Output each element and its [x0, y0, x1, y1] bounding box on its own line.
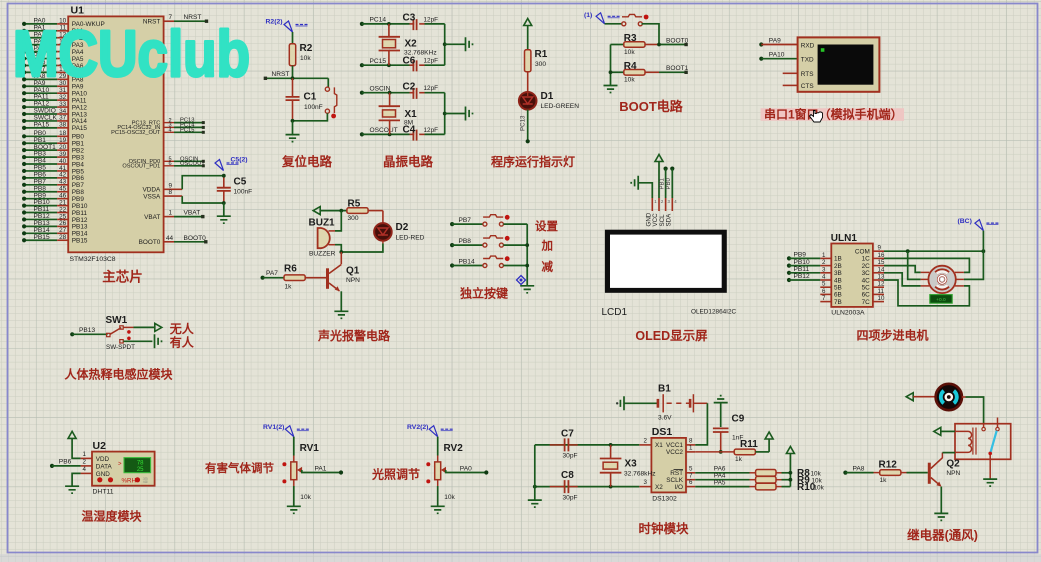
- svg-text:D1: D1: [541, 91, 554, 102]
- wire probe to R2: [292, 32, 294, 44]
- crystal X2 32.768KHz: [379, 24, 437, 65]
- crystal X3 32.768kHz: [600, 445, 656, 487]
- svg-text:BOOT1: BOOT1: [666, 65, 689, 72]
- ground (rotated left) for battery negative: [616, 396, 624, 410]
- svg-text:继电器(通风): 继电器(通风): [907, 528, 978, 543]
- battery B1 3.6V: [658, 384, 694, 422]
- svg-text:STM32F103C8: STM32F103C8: [70, 256, 116, 263]
- svg-text:10k: 10k: [624, 49, 635, 56]
- wire X2 row: [533, 485, 639, 489]
- svg-text:OSCIN: OSCIN: [370, 86, 391, 93]
- svg-text:DS1302: DS1302: [652, 496, 677, 503]
- wire PB14 to key: [452, 265, 483, 267]
- svg-text:12pF: 12pF: [424, 58, 439, 65]
- potentiometer RV1 10k: [282, 443, 319, 501]
- reset push button: [325, 87, 337, 118]
- svg-text:C1: C1: [304, 92, 317, 103]
- svg-text:C2: C2: [403, 82, 416, 93]
- svg-text:30pF: 30pF: [563, 453, 578, 460]
- svg-text:R3: R3: [624, 33, 637, 44]
- wire buzzer top pin: [329, 211, 342, 231]
- svg-text:7: 7: [822, 295, 826, 302]
- power arrow for U2: [68, 431, 76, 438]
- wire probe to button: [605, 23, 622, 25]
- wire SCLK net PA4: [695, 473, 749, 480]
- svg-text:10k: 10k: [300, 55, 311, 62]
- svg-text:12pF: 12pF: [424, 16, 439, 23]
- svg-text:X2: X2: [655, 484, 663, 491]
- wire C1 bottom to ground: [292, 121, 294, 134]
- svg-text:R5: R5: [348, 199, 361, 210]
- terminal PB6: [50, 459, 72, 468]
- probe R2(2) on reset node: [266, 19, 308, 33]
- relay coil: [955, 428, 976, 455]
- stepper motor body: [928, 266, 955, 293]
- svg-text:8: 8: [689, 438, 693, 445]
- power arrow 无人: [155, 323, 162, 331]
- caption 主芯片: [102, 269, 143, 285]
- wire VCC2 row: [695, 451, 734, 453]
- pull-up rail and power arrow: [789, 454, 793, 487]
- wire key PB14 to common rail: [503, 265, 527, 267]
- svg-text:2: 2: [644, 438, 648, 445]
- wire to reset button top contact: [327, 78, 329, 87]
- wire RV2 to ground: [437, 480, 439, 506]
- U1 pin 44 BOOT0 wire: [139, 235, 208, 246]
- wire GND pin to ground: [72, 473, 81, 485]
- svg-text:SDA: SDA: [666, 213, 673, 227]
- OLED display LCD1 body: [602, 230, 737, 318]
- wire battery positive to VCC1: [693, 403, 707, 445]
- wire ground to C9: [720, 403, 722, 427]
- ground below U2: [65, 486, 79, 493]
- power arrow for D1: [524, 19, 532, 26]
- svg-text:主芯片: 主芯片: [102, 269, 143, 285]
- svg-text:R2(2): R2(2): [266, 19, 283, 26]
- svg-text:6: 6: [689, 479, 693, 486]
- wire RV1 wiper to PA1: [302, 465, 343, 474]
- caption 程序运行指示灯: [491, 154, 575, 169]
- svg-text:RV1(2): RV1(2): [263, 424, 284, 431]
- svg-text:有害气体调节: 有害气体调节: [205, 461, 274, 475]
- svg-text:PA5: PA5: [714, 479, 726, 486]
- svg-text:X1: X1: [405, 109, 418, 120]
- svg-text:NPN: NPN: [346, 277, 360, 284]
- keys common rail wire: [525, 224, 529, 285]
- svg-text:PA1: PA1: [315, 465, 327, 472]
- svg-text:4: 4: [169, 128, 172, 134]
- svg-text:LED-GREEN: LED-GREEN: [541, 103, 580, 110]
- svg-text:时钟模块: 时钟模块: [638, 521, 689, 536]
- wire PB6 to DATA: [52, 465, 81, 467]
- wire R1 to D1: [527, 72, 529, 92]
- svg-text:C7: C7: [561, 429, 574, 440]
- svg-text:CTS: CTS: [801, 83, 814, 90]
- RTS pin stub: [783, 72, 798, 74]
- svg-text:BUZ1: BUZ1: [309, 218, 336, 229]
- svg-text:R4: R4: [624, 61, 637, 72]
- svg-text:R2: R2: [300, 43, 313, 54]
- terminal PA8: [843, 465, 865, 474]
- terminal PA7: [261, 270, 279, 280]
- wire BOOT1 net: [659, 65, 689, 74]
- ground below Q1: [334, 311, 348, 318]
- svg-text:3.6V: 3.6V: [658, 415, 672, 422]
- capacitor C6 12pF: [403, 55, 445, 71]
- power arrow for relay coil: [934, 427, 941, 435]
- U1 pin 1 VBAT wire: [144, 210, 204, 221]
- wire button to BOOT0 node: [642, 24, 660, 45]
- svg-text:25: 25: [137, 467, 144, 473]
- svg-text:4B: 4B: [834, 277, 842, 284]
- svg-text:人体热释电感应模块: 人体热释电感应模块: [64, 367, 173, 382]
- ULN1 right pins COM,1C-7C with stubs and numbers: [855, 245, 885, 306]
- svg-text:X3: X3: [625, 459, 638, 470]
- svg-text:16: 16: [878, 252, 885, 259]
- terminal PA9: [759, 37, 781, 46]
- svg-text:RXD: RXD: [801, 42, 815, 49]
- wire OSCIN row: [362, 91, 410, 95]
- svg-text:声光报警电路: 声光报警电路: [317, 328, 391, 343]
- relay RL1 body: [955, 424, 1011, 460]
- wire RV1 to ground: [293, 480, 295, 506]
- svg-text:TXD: TXD: [801, 57, 814, 64]
- svg-text:OLED12864I2C: OLED12864I2C: [691, 309, 737, 316]
- svg-text:C3: C3: [403, 13, 416, 24]
- wire Q2 emitter to ground: [940, 487, 942, 513]
- svg-text:(BC): (BC): [958, 218, 972, 225]
- ground below RV2: [431, 506, 445, 513]
- svg-text:X1: X1: [655, 442, 663, 449]
- buzzer BUZ1: [309, 218, 336, 258]
- svg-text:SW-SPDT: SW-SPDT: [106, 344, 135, 351]
- wire R12 to Q2 base: [907, 472, 928, 474]
- svg-text:5B: 5B: [834, 285, 842, 292]
- power arrow for OLED VCC: [655, 155, 663, 162]
- svg-text:PA15: PA15: [72, 125, 88, 132]
- svg-text:ULN1: ULN1: [831, 233, 858, 244]
- svg-text:X2: X2: [405, 39, 418, 50]
- svg-text:独立按键: 独立按键: [459, 286, 508, 301]
- svg-text:(1): (1): [584, 12, 592, 19]
- caption 温湿度模块: [81, 509, 142, 524]
- net label PC13 (vertical): [520, 115, 527, 131]
- origin marker (blue diamond): [517, 276, 526, 285]
- terminal OSCOUT: [360, 127, 398, 136]
- svg-text:PB15: PB15: [34, 234, 50, 241]
- relay contacts and blade: [982, 418, 999, 456]
- svg-text:7C: 7C: [862, 299, 871, 306]
- svg-text:5: 5: [822, 281, 826, 288]
- caption 晶振电路: [383, 154, 434, 169]
- svg-text:D2: D2: [396, 222, 409, 233]
- svg-text:12pF: 12pF: [424, 85, 439, 92]
- wire PB13 to SW1: [72, 333, 107, 335]
- svg-text:BOOT电路: BOOT电路: [619, 99, 684, 114]
- svg-text:1B: 1B: [834, 256, 842, 263]
- ground (inverted) above C9: [714, 396, 728, 403]
- svg-text:PB15: PB15: [72, 238, 88, 245]
- chip ULN1 ULN2003A body: [831, 233, 873, 317]
- svg-text:1k: 1k: [880, 477, 888, 484]
- chip DS1 DS1302 body: [651, 426, 686, 503]
- resistor R2 10k: [289, 43, 312, 66]
- svg-text:VCC2: VCC2: [666, 449, 683, 456]
- wire probe to COM rail: [982, 231, 984, 252]
- wire SCL pin: [665, 169, 667, 198]
- caption 复位电路: [281, 154, 333, 169]
- svg-text:RV2: RV2: [444, 443, 464, 454]
- wire PA10 to TXD: [761, 58, 797, 60]
- svg-text:C5(2): C5(2): [231, 157, 248, 164]
- terminal PB14: [450, 258, 475, 267]
- wire PB7 to key: [452, 223, 483, 225]
- svg-text:Q1: Q1: [346, 266, 360, 277]
- svg-text:1: 1: [83, 451, 87, 458]
- wire COM to motor left center tap: [908, 251, 921, 279]
- svg-text:DATA: DATA: [96, 463, 113, 470]
- wire power to U2 VDD: [72, 438, 81, 458]
- label 加: [541, 238, 554, 252]
- svg-text:PB9: PB9: [794, 252, 807, 259]
- DS1 left pin stubs and numbers: [639, 438, 651, 487]
- svg-text:PB10: PB10: [794, 259, 810, 266]
- wire PA8 to R12: [845, 472, 873, 474]
- ULN1 left pins 1B-7B with stubs and numbers: [820, 252, 842, 306]
- power arrow for R5: [313, 207, 320, 215]
- wire Q2 collector to relay coil: [942, 453, 955, 459]
- svg-text:NPN: NPN: [946, 470, 960, 477]
- svg-text:2: 2: [83, 459, 87, 466]
- key button PB14: [483, 256, 510, 267]
- capacitor C5 100nF: [217, 174, 252, 205]
- probe RV1(2): [263, 424, 309, 437]
- svg-text:2C: 2C: [862, 263, 871, 270]
- svg-text:13: 13: [878, 274, 885, 281]
- svg-text:6: 6: [169, 161, 172, 167]
- wire power to R1: [527, 26, 529, 50]
- svg-text:COM: COM: [855, 249, 870, 256]
- svg-text:10k: 10k: [300, 494, 311, 501]
- svg-text:程序运行指示灯: 程序运行指示灯: [491, 154, 575, 169]
- caption 光照调节: [371, 467, 420, 482]
- terminal PB7: [450, 217, 471, 226]
- caption 人体热释电感应模块: [64, 367, 173, 382]
- svg-text:VBAT: VBAT: [144, 214, 160, 221]
- wire R11 to power arrow: [755, 439, 769, 452]
- net label PB1 (vertical): [659, 177, 665, 189]
- svg-text:PA15: PA15: [34, 121, 50, 128]
- svg-text:2: 2: [822, 259, 826, 266]
- wire PC14 row: [362, 22, 410, 26]
- LED D1 LED-GREEN: [519, 91, 579, 110]
- terminal OSCIN: [360, 86, 391, 95]
- wire RST net PA6: [695, 466, 749, 473]
- label 有人: [170, 334, 195, 349]
- ground of clock crystal: [528, 500, 542, 507]
- potentiometer RV2 10k: [426, 443, 463, 501]
- svg-text:6B: 6B: [834, 292, 842, 299]
- wire Q1 emitter to ground: [340, 291, 342, 311]
- U1 pins OSCIN_PD0/OSCOUT_PD1 wires and net labels: [122, 156, 205, 169]
- svg-text:3B: 3B: [834, 270, 842, 277]
- svg-text:10k: 10k: [811, 471, 822, 478]
- resistor R1 300: [525, 49, 548, 72]
- wire I/O net PA5: [695, 479, 749, 486]
- wire power to fan (red): [913, 396, 935, 398]
- U1 pin 7 NRST wire and net label: [143, 14, 208, 25]
- svg-text:PA8: PA8: [853, 465, 865, 472]
- caption 串口1窗口(模拟手机端) with highlight: [761, 107, 904, 122]
- svg-text:PB12: PB12: [794, 273, 810, 280]
- svg-text:R1: R1: [535, 49, 548, 60]
- caption OLED显示屏: [635, 329, 708, 343]
- wire D1 to PC13 terminal: [526, 110, 530, 144]
- transistor Q1 NPN: [326, 265, 360, 292]
- svg-text:38: 38: [59, 122, 67, 129]
- svg-text:VCC1: VCC1: [666, 442, 683, 449]
- svg-text:PB13: PB13: [79, 327, 95, 334]
- wire PB8 to key: [452, 244, 483, 246]
- svg-text:4: 4: [83, 466, 87, 473]
- svg-text:PB0: PB0: [666, 177, 672, 189]
- svg-text:光照调节: 光照调节: [371, 467, 420, 482]
- caption 独立按键: [459, 286, 508, 301]
- svg-text:3: 3: [644, 479, 648, 486]
- wire key PB8 to common rail: [503, 244, 527, 246]
- wire GND pin: [639, 183, 652, 198]
- resistor R5 300: [347, 199, 383, 222]
- resistor R10 10k: [750, 482, 825, 493]
- svg-text:12: 12: [878, 281, 885, 288]
- ground (rotated) of X1 block: [466, 107, 473, 121]
- resistor R9 10k: [750, 475, 823, 486]
- caption 四项步进电机: [856, 328, 928, 343]
- svg-text:10: 10: [878, 295, 885, 302]
- svg-text:BUZZER: BUZZER: [309, 251, 336, 258]
- stepper speed display: [930, 295, 952, 304]
- wire PC15 row: [362, 63, 410, 67]
- svg-text:SW1: SW1: [106, 315, 128, 326]
- svg-text:R6: R6: [284, 264, 297, 275]
- svg-text:C6: C6: [403, 55, 416, 66]
- svg-text:32.768kHz: 32.768kHz: [624, 471, 656, 478]
- svg-text:U1: U1: [71, 5, 85, 17]
- svg-text:PB6: PB6: [59, 459, 72, 466]
- DHT11 red indicator dots and %RH label: [97, 476, 148, 484]
- svg-text:100nF: 100nF: [234, 189, 253, 196]
- wire battery negative: [624, 402, 658, 404]
- svg-text:PA7: PA7: [266, 270, 278, 277]
- svg-text:PC13: PC13: [520, 115, 527, 131]
- wire 4C to motor right-bottom: [884, 280, 969, 306]
- svg-text:10k: 10k: [814, 485, 825, 492]
- svg-text:R11: R11: [740, 439, 758, 450]
- net label PB0 (vertical): [666, 177, 672, 189]
- svg-text:LED-RED: LED-RED: [396, 234, 425, 241]
- wire VDDA to C5 top: [143, 176, 224, 194]
- svg-text:四项步进电机: 四项步进电机: [856, 328, 928, 343]
- svg-text:OSCOUT: OSCOUT: [370, 127, 398, 134]
- svg-text:11: 11: [878, 288, 885, 295]
- svg-text:3: 3: [822, 266, 826, 273]
- svg-text:1C: 1C: [862, 256, 871, 263]
- svg-text:8: 8: [169, 189, 173, 196]
- wire right vertical of X2 block: [443, 24, 465, 65]
- MCUclub cyan watermark: [13, 17, 250, 90]
- svg-text:加: 加: [541, 238, 554, 252]
- wire R2 to NRST node: [292, 66, 294, 79]
- svg-text:BOOT0: BOOT0: [666, 37, 689, 44]
- svg-text:湿: 湿: [143, 476, 149, 484]
- probe (1) on BOOT button: [584, 12, 620, 24]
- capacitor C7 30pF: [550, 429, 578, 460]
- capacitor C4 12pF: [403, 125, 445, 141]
- svg-text:12pF: 12pF: [424, 127, 439, 134]
- wire C5 to ground: [223, 203, 225, 216]
- svg-text:1k: 1k: [735, 456, 743, 463]
- ground below C5: [217, 216, 231, 223]
- svg-text:VSSA: VSSA: [143, 193, 161, 200]
- serial window component body: [798, 37, 880, 91]
- svg-text:BOOT0: BOOT0: [139, 239, 161, 246]
- svg-text:15: 15: [878, 259, 885, 266]
- svg-text:VBAT: VBAT: [184, 210, 201, 217]
- svg-text:C5: C5: [234, 177, 247, 188]
- svg-text:无人: 无人: [169, 321, 195, 336]
- wire BOOT0 net: [657, 37, 689, 46]
- resistor R11 1k: [734, 439, 758, 463]
- ground (rotated left) for OLED GND: [631, 176, 638, 190]
- terminal PB13: [70, 327, 95, 337]
- svg-text:300: 300: [535, 61, 546, 68]
- probe C5(2) on OSCOUT net: [215, 157, 248, 171]
- BOOT push button: [622, 14, 649, 25]
- svg-text:DHT11: DHT11: [93, 489, 114, 496]
- ground of BOOT circuit: [604, 86, 618, 93]
- svg-text:ULN2003A: ULN2003A: [831, 310, 865, 317]
- svg-text:30pF: 30pF: [563, 494, 578, 501]
- svg-text:LCD1: LCD1: [602, 307, 628, 318]
- svg-text:1: 1: [822, 252, 826, 259]
- resistor R6 1k: [284, 264, 305, 291]
- wire C7/C8 left rail to ground: [534, 445, 536, 500]
- svg-text:4: 4: [822, 274, 826, 281]
- capacitor C9 1nF: [713, 414, 745, 454]
- svg-text:PB14: PB14: [459, 258, 475, 265]
- terminal PC14: [360, 17, 387, 26]
- svg-text:RTS: RTS: [801, 71, 814, 78]
- terminal PB1: [664, 167, 668, 171]
- wire SW1 throw2 to ground: [123, 340, 152, 342]
- svg-text:PC15: PC15: [370, 58, 387, 65]
- wire D2 to junction: [341, 241, 383, 252]
- svg-text:C8: C8: [561, 470, 574, 481]
- mouse hand cursor: [810, 111, 823, 123]
- transistor Q2 NPN: [928, 458, 961, 487]
- probe RV2(2): [407, 424, 453, 437]
- wire Q1 collector: [340, 252, 342, 264]
- svg-text:VDD: VDD: [96, 456, 110, 463]
- wire fan to relay switch: [962, 397, 984, 428]
- svg-text:有人: 有人: [170, 334, 195, 349]
- ground below Q2: [934, 513, 948, 520]
- wire VCC pin: [658, 162, 660, 199]
- fan motor icon: [936, 384, 962, 410]
- svg-text:14: 14: [878, 266, 885, 273]
- svg-text:1: 1: [169, 210, 173, 217]
- stepper motor pin stubs: [921, 272, 964, 286]
